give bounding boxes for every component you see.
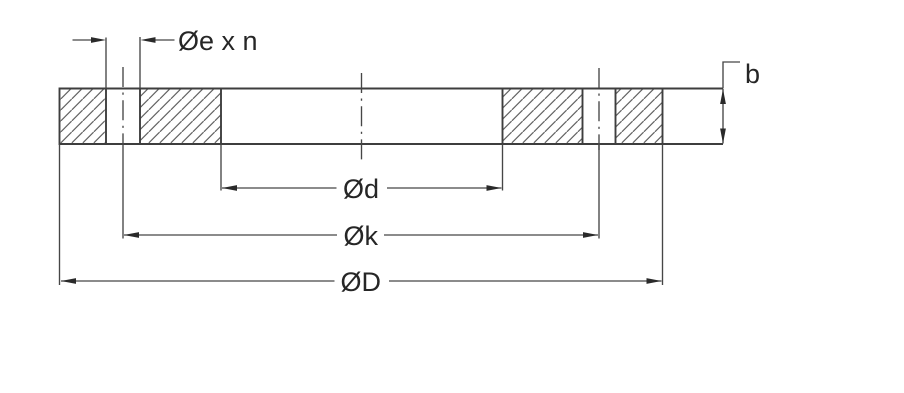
- dimension Oe x n right arrow: [141, 37, 156, 43]
- dimension Od right arrow: [487, 185, 502, 191]
- svg-text:Øk: Øk: [344, 221, 379, 251]
- dimension Od line left: [222, 187, 337, 189]
- svg-text:Ød: Ød: [343, 174, 379, 204]
- right bolt hole left edge: [582, 89, 584, 145]
- dimension Ok line right: [384, 234, 598, 236]
- extension line below right hole center: [598, 144, 600, 239]
- extension line above left hole left: [105, 38, 107, 89]
- hatch section left inner: [140, 89, 221, 145]
- dimension b top arrow: [720, 89, 726, 104]
- extension line below bore left: [220, 144, 222, 191]
- dimension OD right arrow: [647, 278, 662, 284]
- dimension OD line right: [389, 280, 662, 282]
- dimension OD left arrow: [61, 278, 76, 284]
- right bolt hole right edge: [615, 89, 617, 145]
- dimension Oe x n left line: [73, 39, 94, 41]
- extension line above left hole right: [139, 37, 141, 89]
- flange top edge: [60, 88, 724, 90]
- dimension Ok line left: [124, 234, 337, 236]
- dimension Oe x n left arrow: [91, 37, 106, 43]
- flange bottom edge: [60, 143, 724, 145]
- right bolt hole centerline: [598, 68, 600, 150]
- svg-text:ØD: ØD: [341, 267, 382, 297]
- dimension Ok right arrow: [583, 232, 598, 238]
- bore left edge: [220, 89, 222, 145]
- bore right edge: [502, 89, 504, 145]
- left bolt hole centerline: [122, 67, 124, 150]
- flange centerline: [361, 73, 363, 162]
- flange left edge: [59, 88, 61, 146]
- left bolt hole left edge: [105, 89, 107, 145]
- extension line below flange left: [59, 144, 61, 285]
- extension line below bore right: [502, 144, 504, 191]
- flange right edge: [662, 88, 664, 146]
- dimension Od line right: [387, 187, 502, 189]
- left bolt hole right edge: [139, 89, 141, 145]
- dimension Ok left arrow: [124, 232, 139, 238]
- dimension Od left arrow: [222, 185, 237, 191]
- extension line below left hole center: [122, 150, 124, 239]
- dimension OD line left: [61, 280, 335, 282]
- svg-text:Øe x n: Øe x n: [178, 26, 258, 56]
- dimension b bottom arrow: [720, 129, 726, 144]
- hatch section left outer: [60, 89, 107, 145]
- label b leader: [723, 62, 740, 89]
- extension line below flange right: [662, 144, 664, 285]
- hatch section right inner: [503, 89, 583, 145]
- hatch section right outer: [616, 89, 663, 145]
- svg-text:b: b: [745, 59, 760, 89]
- dimension b line: [722, 89, 724, 144]
- dimension Oe x n right line: [153, 39, 175, 41]
